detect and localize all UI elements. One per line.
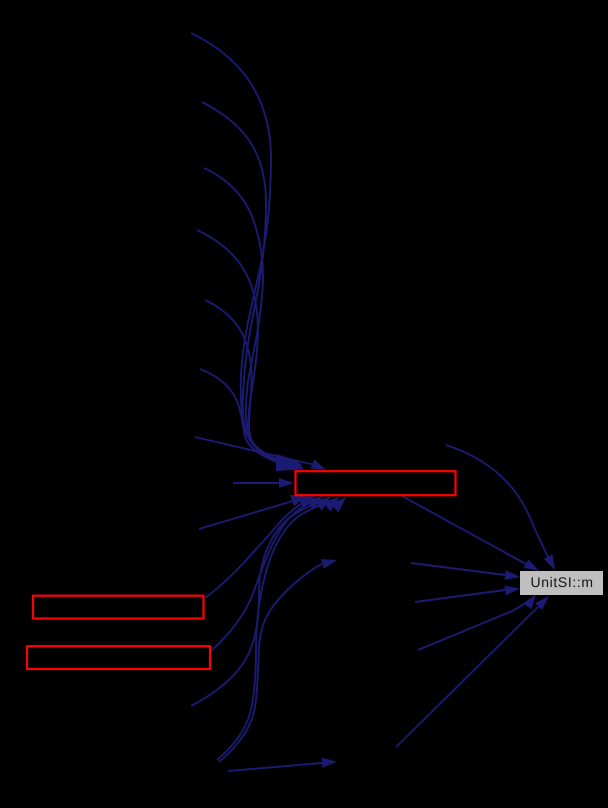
arrowhead C1: [290, 495, 315, 508]
wire A7: [195, 437, 313, 465]
arrowhead C3: [315, 496, 331, 510]
wire Emid: [219, 564, 322, 762]
arrowhead C5: [330, 497, 346, 512]
wire A2: [202, 102, 285, 463]
wire A1: [191, 33, 285, 462]
arrowhead C2: [306, 496, 323, 510]
arrowhead edge3: [524, 559, 540, 571]
arrowhead C4: [323, 497, 339, 512]
arrowhead L2: [504, 586, 520, 596]
wire A4: [197, 230, 284, 464]
arrowhead A7: [310, 459, 326, 470]
wire C3: [211, 500, 317, 651]
arrowhead bundle blob: [276, 454, 304, 471]
wire C4: [191, 501, 325, 706]
arrowhead edge6: [535, 596, 549, 610]
arrowhead L1: [504, 570, 520, 580]
wire edge3: [402, 496, 526, 564]
wire A5: [205, 300, 284, 464]
wire curveT: [446, 445, 548, 557]
wire edge5: [418, 602, 527, 650]
wire C5: [217, 502, 332, 760]
arrowhead curveT: [544, 554, 555, 570]
wire A3: [204, 168, 285, 463]
wire L1: [411, 563, 505, 575]
wire C2: [205, 500, 309, 598]
wire C1: [199, 501, 293, 529]
arrowhead B1: [279, 478, 294, 488]
wire Ebot: [228, 763, 322, 771]
arrowhead Ebot: [322, 758, 337, 768]
node red box1: [33, 596, 204, 619]
arrowhead Emid: [321, 559, 337, 569]
wire B1: [233, 482, 281, 484]
node UnitSI::m: [520, 571, 603, 595]
node red box central: [296, 471, 456, 495]
wire A6: [200, 369, 283, 465]
node red box2: [27, 646, 210, 669]
wire L2: [415, 590, 505, 602]
arrowhead edge5: [523, 594, 536, 609]
wire edge6: [396, 607, 538, 747]
